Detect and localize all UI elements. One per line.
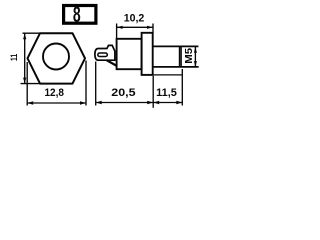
thread M5 arrow down: [194, 61, 197, 67]
stud top edge with extension: [153, 45, 199, 47]
dim 12,8 line: [27, 102, 86, 104]
dim 10,2 arrow left: [117, 26, 123, 29]
svg-text:10,2: 10,2: [124, 13, 145, 25]
tab slot: [98, 53, 108, 57]
dim 11,5 arrow right: [176, 101, 182, 105]
stud hole circle: [43, 44, 69, 70]
svg-text:12,8: 12,8: [44, 87, 64, 99]
hex nut body front view: [28, 33, 86, 83]
dim 20,5 arrow left: [96, 101, 102, 105]
dim 11 line: [24, 33, 26, 83]
dim 10,2 extension right: [152, 24, 154, 33]
dim 12,8 arrow left: [27, 101, 33, 105]
dim right extension: [181, 69, 183, 106]
figure number box: [64, 6, 96, 24]
dim 11 arrow down: [23, 78, 26, 84]
dim 12,8 arrow right: [80, 101, 86, 105]
svg-text:11,5: 11,5: [156, 87, 177, 99]
svg-text:20,5: 20,5: [111, 87, 135, 99]
hex flange: [142, 33, 153, 75]
thread M5 dim line: [194, 47, 196, 67]
dim 11 arrow up: [23, 33, 26, 39]
dim 10,2 extension left: [116, 24, 118, 39]
flange bottom line under stud: [153, 74, 183, 76]
dim 10,2 arrow right: [147, 26, 153, 29]
dim 12,8 extension left: [26, 62, 28, 106]
dim 12,8 extension right: [85, 61, 87, 106]
dim 11 extension top: [23, 32, 41, 34]
dim 20,5 extension left: [95, 62, 97, 106]
thread M5 arrow up: [194, 47, 197, 53]
ceramic cap body: [117, 39, 142, 69]
dim 11,5 arrow left: [153, 101, 159, 105]
dim bottom line: [96, 102, 183, 104]
dim 11 extension bottom: [21, 83, 43, 85]
dim mid extension: [152, 76, 154, 108]
tab to cap fillet: [107, 60, 117, 66]
dim 10,2 line: [117, 26, 153, 28]
dim 20,5 arrow right: [147, 101, 153, 105]
svg-text:M5: M5: [184, 48, 195, 64]
svg-text:11: 11: [9, 53, 20, 61]
svg-text:8: 8: [73, 2, 81, 27]
stud end chamfer line: [178, 47, 180, 67]
stud end face: [180, 46, 182, 67]
solder tab terminal: [95, 45, 115, 60]
stud bottom edge with extension: [153, 66, 199, 68]
